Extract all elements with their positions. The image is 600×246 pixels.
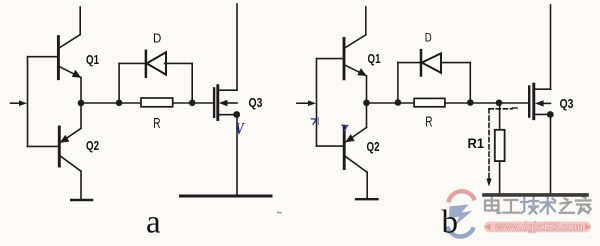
node R1 branch b [496,100,503,107]
transistor Q2 (PNP, circuit a) [28,103,82,199]
svg-text:Q3: Q3 [249,95,263,110]
annotation dashed arrowhead b [486,179,491,187]
svg-text:R: R [425,113,432,130]
svg-text:b: b [442,205,459,241]
svg-text:R: R [153,115,160,132]
transistor Q1 (NPN, circuit b) [317,7,367,103]
svg-text:Q3: Q3 [560,96,574,111]
node left of R a [116,100,123,107]
node right of R a [189,100,196,107]
svg-text:www.dgjs123.com: www.dgjs123.com [494,222,583,234]
annotation blue tick input b [312,119,317,125]
artifact speck a [278,211,282,214]
resistor R1 b [495,103,505,195]
resistor R b [414,98,445,106]
ground terminal under Q2 b [356,198,378,200]
watermark url band [484,222,591,233]
mosfet Q3 b [529,5,550,195]
wire diode branch top a [119,62,146,64]
wire diode branch left b [397,63,399,103]
ground terminal under Q2 a [71,199,92,201]
wire diode branch left a [118,63,120,103]
wire base rail b [316,59,318,147]
wire base rail a [27,57,29,147]
annotation blue tick Q2 b [342,125,348,131]
node junction a (emitters) [78,100,85,107]
ground bar a [181,195,272,198]
transistor Q1 (NPN, circuit a) [28,7,82,103]
diode D a (cathode left) [146,51,166,77]
svg-text:D: D [425,31,432,45]
transistor Q2 (PNP, circuit b) [317,103,368,199]
node source Q3 b [547,111,554,118]
svg-text:D: D [153,31,161,45]
ground bar b [484,193,587,197]
wire diode branch top b [398,62,421,64]
mosfet Q3 a [214,4,237,196]
node left of R b [395,99,402,106]
svg-text:R1: R1 [468,135,485,151]
wire main a [81,102,214,104]
svg-text:Q2: Q2 [86,138,99,153]
wire diode branch right b [469,63,471,103]
annotation dashed current path b [489,109,512,179]
wire input arrow b [297,100,316,106]
resistor R a [141,98,173,107]
watermark text CJK [485,197,591,214]
diode D b (cathode left) [421,50,441,75]
node junction b (emitters) [363,100,370,107]
artifact dash b [512,107,517,109]
svg-text:Q2: Q2 [367,139,380,154]
node right of R b [467,99,474,106]
wire diode branch right a [191,63,193,103]
node source Q3 a [233,111,240,118]
wire main b [367,102,529,104]
svg-text:Q1: Q1 [86,52,99,67]
svg-text:Q1: Q1 [368,51,381,66]
svg-text:a: a [146,205,161,241]
watermark logo [447,191,475,236]
wire input arrow a [11,100,28,106]
